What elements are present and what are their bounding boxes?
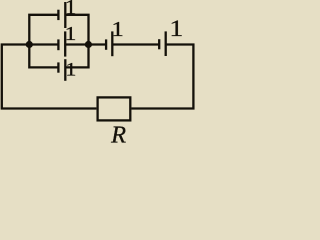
wire: middle branch right segment to node B bbox=[65, 43, 88, 45]
svg-text:1: 1 bbox=[65, 0, 77, 19]
svg-text:1: 1 bbox=[169, 16, 183, 42]
cell B3 (bottom branch, emf 1) bbox=[58, 59, 65, 81]
wire: right side of parallel bank (top branch right, right riser, bottom branch right) bbox=[65, 15, 88, 68]
svg-text:R: R bbox=[110, 121, 126, 143]
cell B1 (top branch, emf 1) bbox=[58, 2, 65, 28]
svg-text:1: 1 bbox=[65, 59, 76, 80]
cell B5 (right series, emf 1) bbox=[159, 31, 166, 56]
resistor R (box) bbox=[98, 97, 131, 120]
wire: middle branch left segment, left outer vertical, bottom-left wire to resistor bbox=[2, 45, 97, 109]
wire: bottom-right wire from resistor, right outer vertical, top-right segment to cell B5 bbox=[132, 45, 194, 109]
wire: cell B4 long plate to cell B5 short plate bbox=[112, 43, 159, 45]
svg-text:1: 1 bbox=[111, 17, 124, 41]
wire: node B to cell B4 short plate bbox=[87, 43, 106, 45]
cell B2 (middle branch, emf 1) bbox=[58, 31, 65, 56]
node A (left junction dot) bbox=[26, 41, 33, 48]
cell B4 (right series, emf 1) bbox=[106, 31, 112, 56]
node B (right junction dot) bbox=[85, 41, 92, 48]
svg-text:1: 1 bbox=[65, 23, 77, 45]
wire: left parallel-bank loop (top branch left, left riser, bottom branch left) bbox=[29, 15, 58, 68]
